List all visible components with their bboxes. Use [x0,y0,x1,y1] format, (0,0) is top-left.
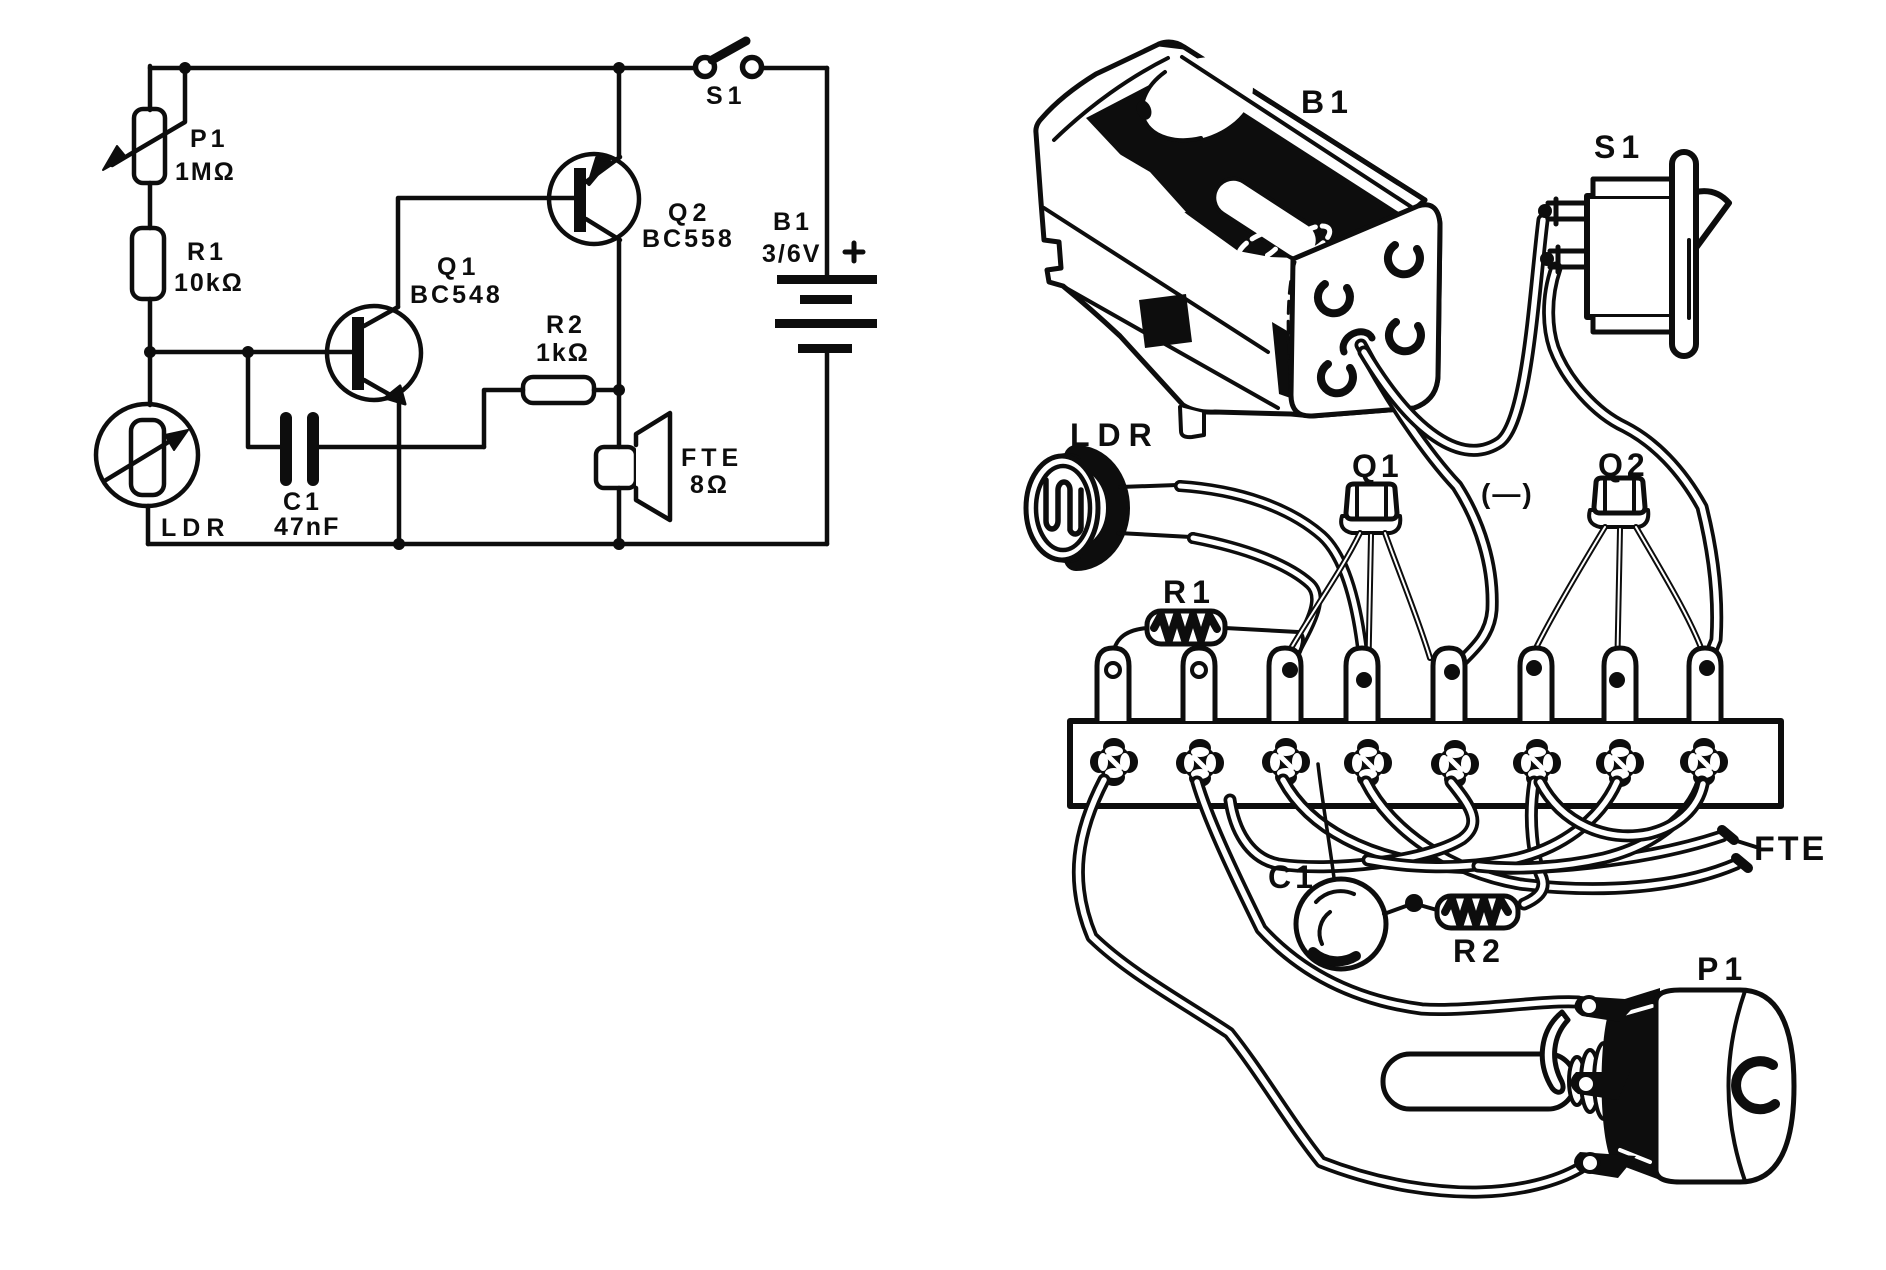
wire screw6 to screw8 bridge [1540,782,1703,836]
wire Q2 collector rail down [617,240,622,544]
label Q1 [410,253,503,309]
wire Q1 collector to Q2 base [398,198,575,307]
svg-text:LDR: LDR [1070,417,1160,453]
switch S1 top terminal [1538,199,1587,224]
battery cell white end [1129,42,1265,156]
LDR [96,404,198,506]
battery cell nub [1134,98,1154,122]
resistor R2 [484,377,619,447]
node base rail junction [144,346,156,358]
battery B1 schematic [775,68,877,544]
node speaker bottom junction [613,538,625,550]
wire bottom rail [148,542,827,547]
battery holder foot [1180,407,1204,437]
label P1 pictorial [1697,951,1748,987]
resistor R1 [132,228,164,299]
potentiometer P1 body back [1602,988,1661,1180]
label R1 value [174,238,244,297]
svg-text:S1: S1 [1594,129,1645,165]
node C1 branch junction [242,346,254,358]
transistor Q1 [327,306,421,404]
transistor Q1 pictorial can [1341,484,1400,533]
plate hole 3 [1321,364,1353,393]
capacitor C1 [248,352,484,486]
battery interior white strip [1082,132,1186,216]
wire Q2 emitter rail up [617,68,622,157]
svg-text:Q2: Q2 [1598,447,1649,483]
svg-text:10kΩ: 10kΩ [174,269,244,297]
potentiometer P1 bushing [1569,1043,1614,1119]
battery plate wire hole [1343,332,1372,352]
potentiometer P1 clamp arc [1542,1012,1568,1092]
wire battery to lug5 (-) [1361,345,1492,666]
wire screw6 to R2 [1524,782,1543,904]
switch S1 toggle [1696,191,1729,248]
label S1 pictorial [1594,129,1645,165]
svg-text:1kΩ: 1kΩ [536,339,590,367]
node Q2 rail junction [613,62,625,74]
svg-text:BC548: BC548 [410,281,503,309]
svg-text:B1: B1 [773,208,813,236]
label S1 [706,82,747,110]
potentiometer P1 [103,68,185,183]
svg-text:LDR: LDR [161,514,230,542]
svg-text:FTE: FTE [681,444,743,472]
node emitter bottom junction [393,538,405,550]
capacitor C1 pictorial [1296,764,1423,969]
label LDR pictorial [1070,417,1160,453]
label FTE value [681,444,743,499]
battery holder B1 case [1036,42,1440,416]
switch S1 flange [1672,152,1696,356]
LDR pictorial body [1026,456,1118,561]
transistor Q1 leads [1290,533,1430,686]
label R1 pictorial [1163,574,1216,610]
label P1 value [175,125,236,186]
svg-text:R2: R2 [1453,933,1506,969]
label C1 value [274,488,340,541]
wire screw8 arc [1478,782,1702,868]
battery black sliver at plate [1272,322,1296,400]
label Q2 pictorial [1598,447,1649,483]
wire left rail [148,66,150,544]
svg-text:3/6V: 3/6V [762,240,821,268]
wire screw4 to FTE bottom [1366,782,1748,889]
potentiometer P1 middle lug [1570,1072,1630,1100]
label Q1 pictorial [1352,448,1403,484]
plus sign [845,243,863,261]
node top-left junction [179,62,191,74]
battery lower black slot [1139,294,1192,348]
svg-text:R1: R1 [187,238,227,266]
svg-text:FTE: FTE [1754,830,1827,868]
wire screw2 to P1 top lug [1197,782,1578,1009]
terminal strip bar [1070,721,1781,806]
label B1 value [762,208,821,268]
speaker FTE [596,413,670,520]
wire LDR bottom to lug3 [1193,538,1316,648]
terminal lugs [1097,648,1721,721]
resistor R2 pictorial [1423,896,1518,928]
plate hole 2 [1388,245,1420,274]
svg-text:C1: C1 [1268,859,1317,895]
svg-text:P1: P1 [1697,951,1748,987]
battery cell bottom highlights [1233,220,1334,269]
potentiometer P1 back slits [1620,1006,1652,1162]
switch S1 schematic [696,41,762,77]
wire Q1 emitter down [397,400,402,544]
wire S1 to lug8 [1549,268,1717,660]
svg-text:C1: C1 [283,488,323,516]
svg-text:R1: R1 [1163,574,1216,610]
svg-text:8Ω: 8Ω [690,471,730,499]
label R2 value [536,311,590,367]
transistor Q2 [549,154,639,244]
LDR leads [1118,480,1199,544]
svg-text:BC558: BC558 [642,225,735,253]
resistor R1 pictorial [1112,611,1303,664]
terminal screws [1090,738,1728,788]
battery cell white side [1207,171,1325,266]
svg-text:47nF: 47nF [274,513,340,541]
svg-text:P1: P1 [190,125,229,153]
svg-text:B1: B1 [1301,84,1354,120]
label B1 pictorial [1301,84,1354,120]
svg-text:Q2: Q2 [668,199,711,227]
svg-text:S1: S1 [706,82,747,110]
svg-text:1MΩ: 1MΩ [175,158,236,186]
svg-text:Q1: Q1 [1352,448,1403,484]
potentiometer P1 face marking [1736,1061,1775,1109]
wire battery to S1 [1364,220,1543,450]
svg-text:(—): (—) [1481,478,1534,509]
wire screw5 stub [1230,782,1473,867]
label C1 pictorial [1268,859,1317,895]
label LDR [161,514,230,542]
battery cells dark mass [1086,70,1408,258]
label FTE pictorial [1737,830,1827,868]
wire screw3 to FTE top [1283,780,1734,868]
potentiometer P1 shaft [1383,1054,1575,1109]
potentiometer P1 bottom lug [1574,1152,1636,1178]
node R2 junction [613,384,625,396]
label minus [1481,478,1534,509]
battery front plate [1288,205,1440,416]
switch S1 body [1587,179,1675,332]
transistor Q2 pictorial can [1589,478,1648,527]
potentiometer P1 top lug [1574,996,1640,1022]
label Q2 [642,199,735,253]
svg-text:Q1: Q1 [437,253,480,281]
wire screw7 arc [1368,782,1617,867]
plate hole 4 [1389,322,1421,351]
label R2 pictorial [1453,933,1506,969]
plate hole 1 [1318,284,1350,313]
wire screw1 to P1 bottom lug [1078,780,1580,1192]
potentiometer P1 body [1656,990,1794,1182]
wire Q1 base [150,350,353,355]
wire top rail [150,66,827,71]
battery ridge inner line [1182,57,1416,210]
wire LDR top to lug4 [1180,486,1362,648]
transistor Q2 leads [1534,527,1704,678]
switch S1 bottom terminal [1540,247,1587,272]
svg-text:R2: R2 [546,311,586,339]
